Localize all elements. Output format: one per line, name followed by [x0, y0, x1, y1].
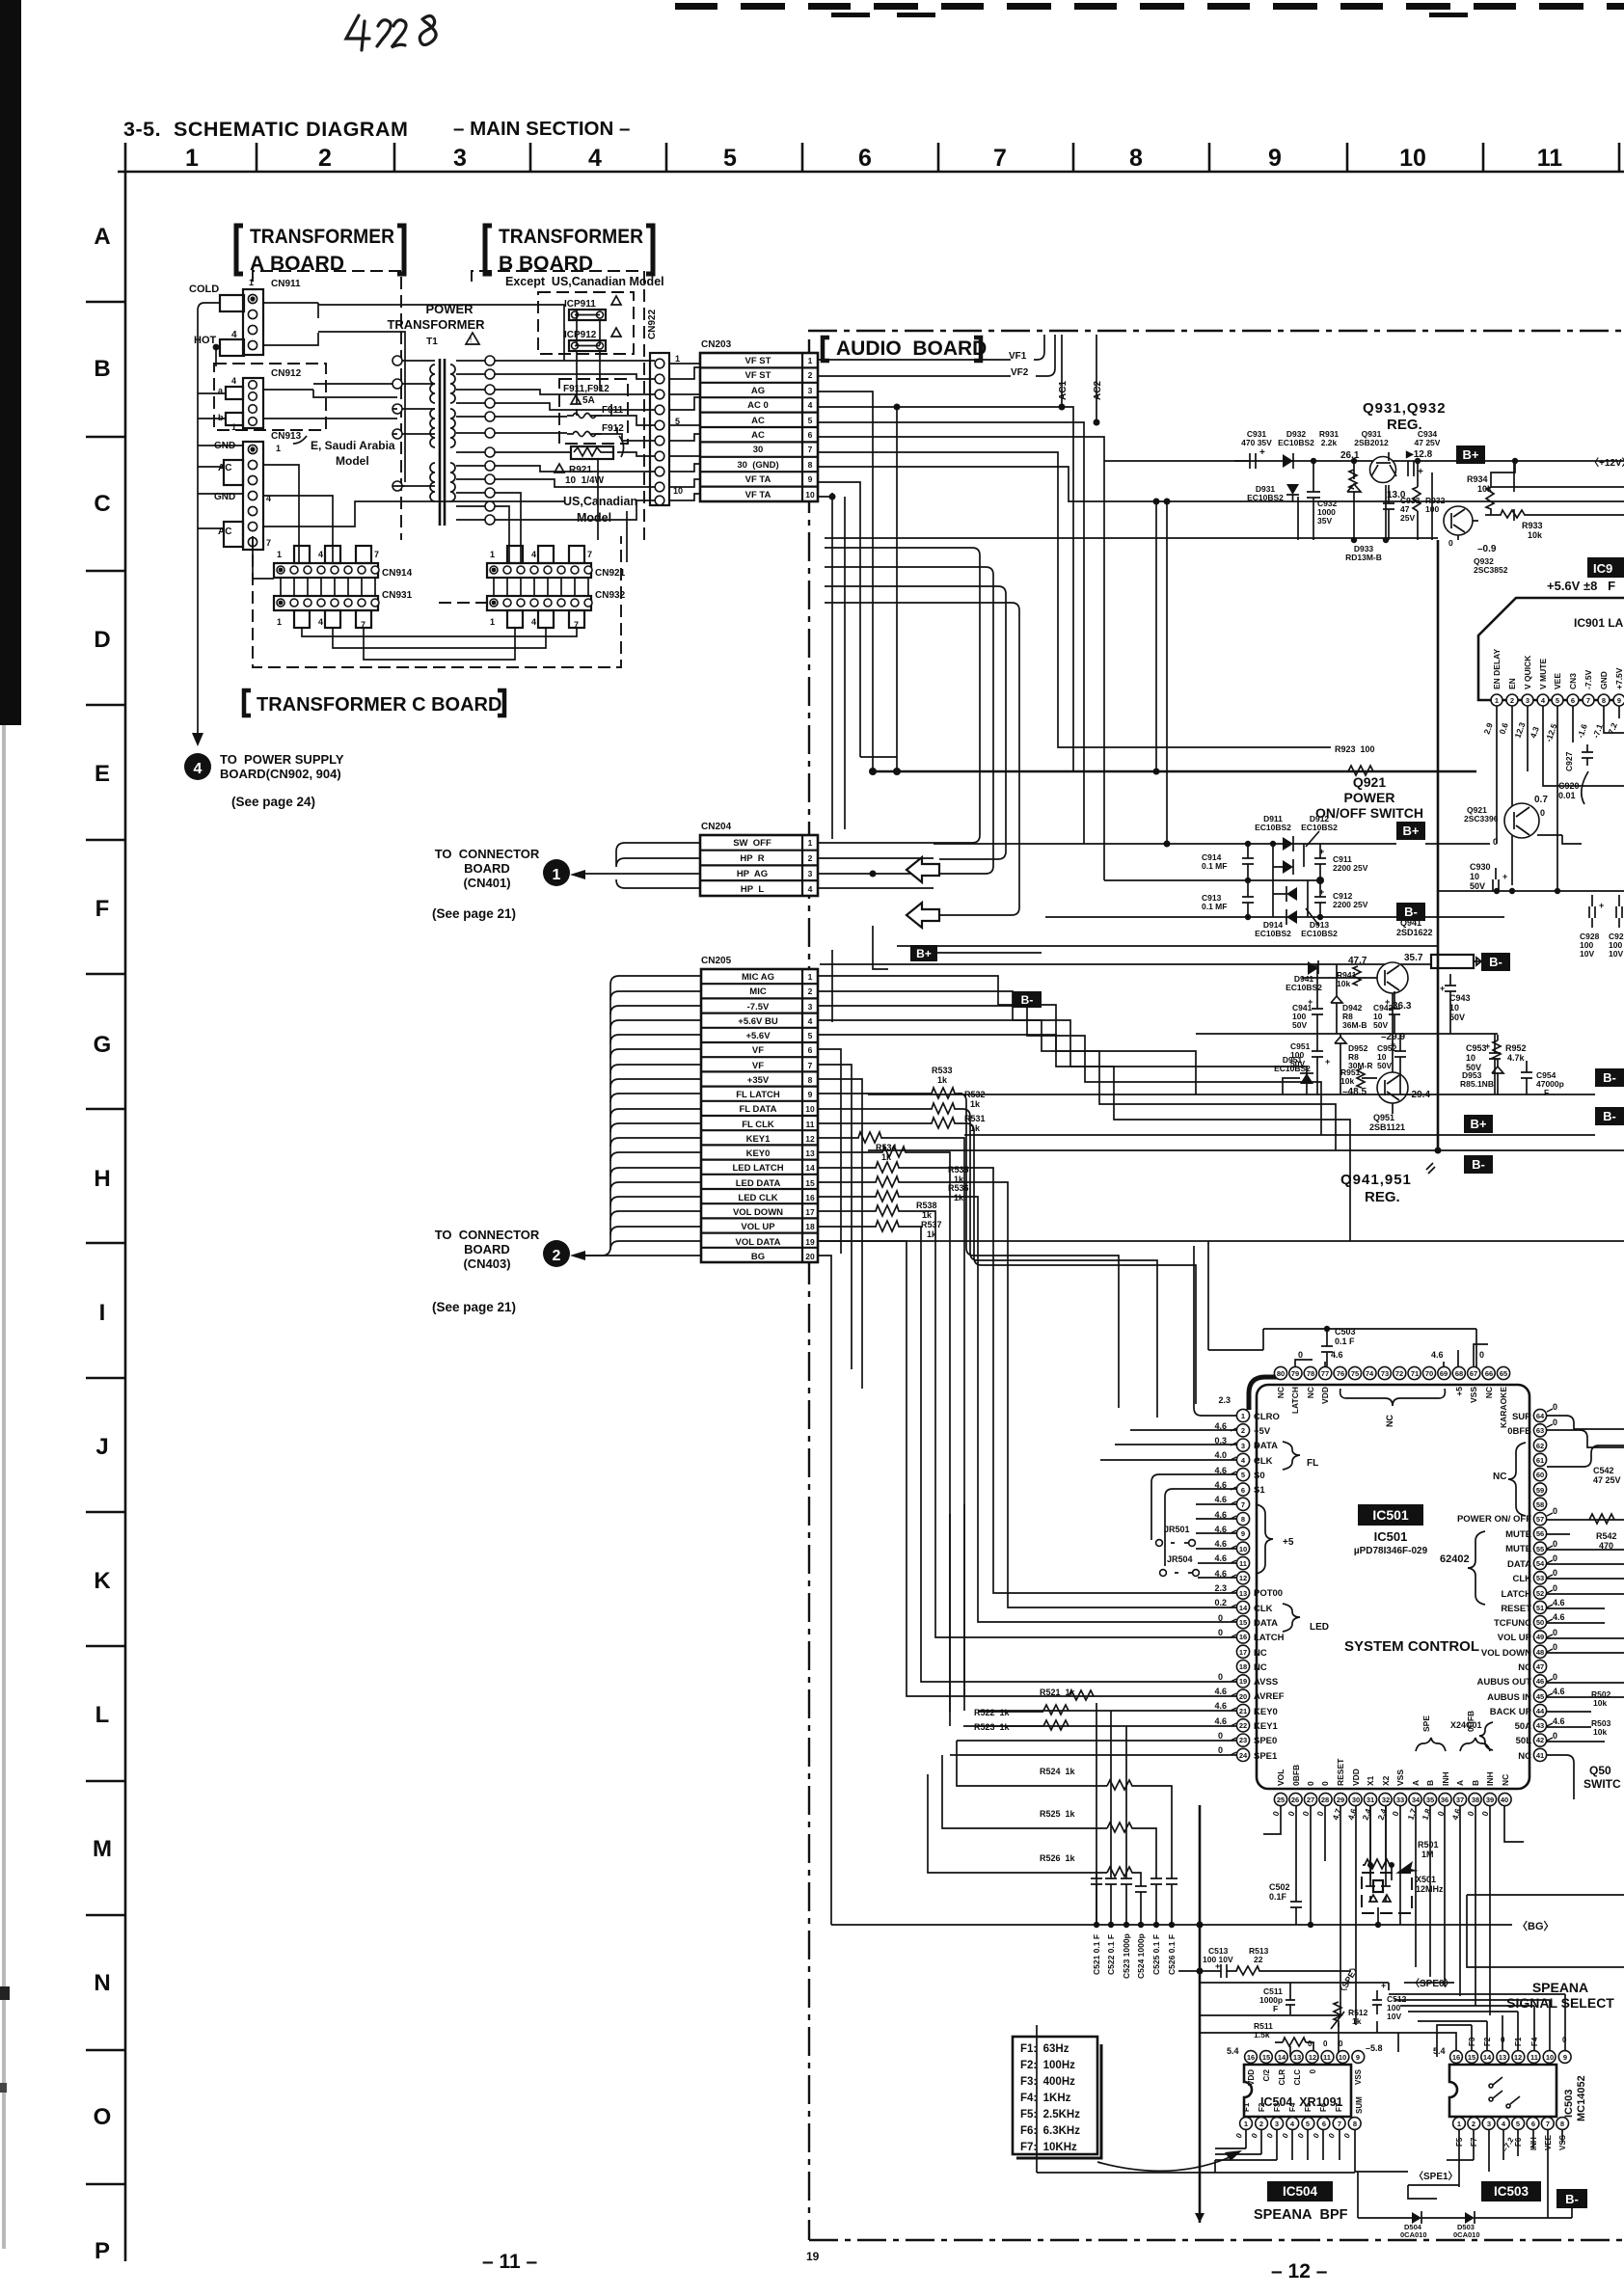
svg-text:E: E: [95, 761, 110, 787]
svg-text:Model: Model: [577, 511, 611, 525]
svg-text:30: 30: [753, 445, 764, 455]
IC503 top pins: [1450, 2051, 1572, 2064]
capacitor bank C521-C526: [1091, 1871, 1177, 1925]
svg-text:C526 0.1 F: C526 0.1 F: [1167, 1934, 1177, 1975]
svg-text:+: +: [1485, 1041, 1490, 1051]
svg-text:LATCH: LATCH: [1502, 1589, 1532, 1600]
rail y1000: [820, 963, 1431, 965]
svg-text:2: 2: [1259, 2120, 1263, 2128]
svg-text:2200 25V: 2200 25V: [1333, 863, 1368, 873]
svg-text:DATA: DATA: [1254, 1618, 1278, 1629]
svg-text:0: 0: [1553, 1642, 1557, 1652]
svg-text:Q951: Q951: [1373, 1113, 1394, 1122]
note 4 to power supply: [192, 733, 203, 746]
svg-text:+5: +5: [1454, 1387, 1464, 1396]
net B+ mid: [1464, 1115, 1493, 1133]
transformer T1 primary winding: [430, 365, 435, 403]
svg-text:47: 47: [1536, 1662, 1544, 1671]
svg-text:12: 12: [1514, 2053, 1522, 2062]
svg-text:7: 7: [266, 538, 271, 548]
svg-text:BOARD: BOARD: [464, 1242, 510, 1256]
svg-text:4.6: 4.6: [1214, 1539, 1227, 1549]
svg-text:MUTE: MUTE: [1505, 1544, 1531, 1554]
svg-text:MC14052: MC14052: [1576, 2075, 1587, 2121]
svg-text:EC10BS2: EC10BS2: [1255, 929, 1291, 938]
wire AC2 riser: [1096, 335, 1097, 422]
svg-text:CLR: CLR: [1278, 2069, 1286, 2086]
wire pin4 junction riser: [896, 407, 898, 771]
svg-text:4.6: 4.6: [1553, 1716, 1565, 1726]
svg-text:+35V: +35V: [747, 1075, 770, 1086]
svg-text:4.6: 4.6: [1553, 1612, 1565, 1622]
svg-text:C542: C542: [1593, 1466, 1614, 1475]
svg-text:CN205: CN205: [701, 956, 732, 966]
svg-text:13: 13: [1293, 2053, 1301, 2062]
svg-text:0: 0: [1339, 2039, 1343, 2048]
svg-text:SWITC: SWITC: [1583, 1777, 1621, 1791]
svg-text:R921: R921: [569, 465, 592, 475]
IC501 label box: [1358, 1504, 1423, 1526]
IC501 right pin voltages: [1553, 1402, 1565, 1741]
signal arrow HP R: [907, 857, 939, 882]
svg-text:6: 6: [1531, 2120, 1535, 2128]
svg-text:MUTE: MUTE: [1505, 1529, 1531, 1540]
svg-text:µPD78I346F-029: µPD78I346F-029: [1354, 1546, 1428, 1556]
svg-text:O: O: [94, 2104, 112, 2130]
svg-text:30 (GND): 30 (GND): [737, 460, 778, 471]
svg-text:2: 2: [318, 145, 332, 172]
svg-text:0.1F: 0.1F: [1269, 1892, 1287, 1902]
wires CN913 right: [253, 465, 564, 562]
wire B board bottom drops: [495, 459, 627, 562]
svg-text:1: 1: [277, 617, 282, 627]
svg-text:AC2: AC2: [1093, 381, 1103, 400]
callout circle 1: [543, 859, 570, 886]
svg-text:VF ST: VF ST: [745, 356, 771, 366]
svg-text:0: 0: [1553, 1731, 1557, 1741]
diode D932: [1283, 454, 1293, 468]
svg-text:AUBUS IN: AUBUS IN: [1487, 1692, 1531, 1703]
svg-text:2: 2: [808, 853, 813, 863]
mid riser wires: [1156, 501, 1167, 844]
svg-text:B+: B+: [1463, 447, 1479, 462]
svg-text:0: 0: [1320, 1781, 1330, 1786]
svg-text:SPE: SPE: [1421, 1715, 1431, 1732]
svg-text:R526 1k: R526 1k: [1040, 1853, 1076, 1863]
svg-text:D: D: [94, 627, 110, 653]
svg-text:54: 54: [1536, 1559, 1545, 1568]
handwritten 4228: [346, 15, 436, 50]
svg-text:B-: B-: [1404, 905, 1418, 919]
svg-text:5.4: 5.4: [1433, 2046, 1446, 2056]
svg-text:R535: R535: [948, 1165, 969, 1175]
svg-text:Q50: Q50: [1589, 1764, 1611, 1777]
svg-text:0BFB: 0BFB: [1291, 1765, 1301, 1786]
svg-text:NC: NC: [1518, 1662, 1531, 1673]
svg-text:77: 77: [1321, 1369, 1329, 1378]
IC503 body: [1449, 2065, 1556, 2117]
svg-text:KEY1: KEY1: [1254, 1721, 1279, 1732]
IC503 bottom pins: [1453, 2118, 1569, 2130]
svg-text:0BFB: 0BFB: [1466, 1711, 1475, 1732]
wire COLD loop: [198, 303, 220, 743]
svg-text:NC: NC: [1306, 1387, 1315, 1398]
svg-text:R538: R538: [916, 1201, 937, 1210]
svg-text:44: 44: [1536, 1707, 1545, 1715]
svg-text:R525 1k: R525 1k: [1040, 1809, 1076, 1819]
rail y924 c930: [1438, 890, 1624, 892]
svg-text:CN931: CN931: [382, 590, 413, 601]
svg-text:1: 1: [1241, 1412, 1245, 1420]
svg-text:50V: 50V: [1449, 1013, 1465, 1022]
svg-text:R522 1k: R522 1k: [974, 1708, 1011, 1717]
svg-text:62402: 62402: [1440, 1553, 1470, 1565]
svg-text:+: +: [1259, 447, 1265, 458]
svg-text:EC10BS2: EC10BS2: [1301, 823, 1338, 832]
IC503 top labels: [1468, 2037, 1539, 2046]
transistor Q941: [1377, 962, 1408, 993]
svg-text:C525 0.1 F: C525 0.1 F: [1151, 1934, 1161, 1975]
svg-text:0: 0: [1218, 1745, 1223, 1755]
svg-text:40: 40: [1501, 1796, 1508, 1804]
svg-text:B+: B+: [1403, 824, 1420, 838]
svg-text:A: A: [1411, 1780, 1421, 1786]
svg-text:R523 1k: R523 1k: [974, 1722, 1011, 1732]
svg-text:B-: B-: [1603, 1070, 1616, 1085]
wires into left pins: [950, 1246, 1236, 1755]
svg-text:10: 10: [1239, 1545, 1247, 1553]
svg-text:SPE1: SPE1: [1254, 1751, 1278, 1762]
svg-text:69: 69: [1440, 1369, 1448, 1378]
svg-text:FL LATCH: FL LATCH: [736, 1090, 780, 1100]
svg-text:50: 50: [1536, 1618, 1544, 1627]
legs above CN921: [507, 546, 523, 563]
svg-text:– 12 –: – 12 –: [1271, 2260, 1328, 2282]
svg-text:14: 14: [805, 1163, 815, 1173]
component labels row: [1241, 429, 1441, 447]
svg-text:8: 8: [1602, 696, 1606, 705]
svg-text:AVSS: AVSS: [1254, 1677, 1278, 1688]
scan edge black bar: [0, 0, 21, 725]
capacitor C931: [1250, 453, 1256, 469]
IC501 top pin names: [1276, 1387, 1508, 1428]
crystal X501: [1362, 1873, 1412, 1913]
svg-text:47000p: 47000p: [1536, 1079, 1564, 1089]
svg-text:73: 73: [1381, 1369, 1389, 1378]
IC901 pin voltages: [1481, 720, 1619, 743]
svg-text:N: N: [94, 1970, 110, 1996]
svg-text:NC: NC: [1493, 1472, 1506, 1482]
svg-text:2: 2: [808, 370, 813, 380]
svg-text:47 25V: 47 25V: [1415, 438, 1441, 447]
svg-text:HP R: HP R: [740, 853, 764, 864]
resistor R921: [571, 446, 614, 459]
transformer T1 secondary winding: [450, 365, 455, 403]
svg-text:7: 7: [808, 1061, 813, 1070]
B board dashed outline: [472, 271, 644, 540]
svg-text:9: 9: [808, 474, 813, 484]
svg-text:35: 35: [1426, 1796, 1434, 1804]
capacitor C928: [1589, 895, 1595, 928]
svg-text:F4: 1KHz: F4: 1KHz: [1020, 2093, 1071, 2104]
svg-text:3: 3: [808, 386, 813, 395]
svg-text:BG: BG: [751, 1252, 765, 1262]
svg-text:3: 3: [808, 869, 813, 878]
svg-text:IC503: IC503: [1494, 2184, 1529, 2199]
svg-text:1: 1: [490, 550, 495, 559]
legs below CN931: [294, 610, 310, 628]
svg-text:(CN401): (CN401): [463, 876, 510, 890]
svg-text:VF: VF: [752, 1045, 764, 1056]
wires power switch mesh: [1273, 844, 1308, 917]
svg-text:I: I: [99, 1300, 106, 1326]
svg-text:26.1: 26.1: [1340, 450, 1360, 461]
svg-text:R524 1k: R524 1k: [1040, 1767, 1076, 1776]
svg-text:3: 3: [808, 1002, 813, 1012]
svg-text:VF TA: VF TA: [745, 490, 771, 500]
svg-text:0: 0: [1479, 1350, 1484, 1360]
svg-text:CLRO: CLRO: [1254, 1412, 1280, 1422]
svg-text:19: 19: [805, 1237, 815, 1247]
svg-text:– MAIN SECTION –: – MAIN SECTION –: [453, 118, 630, 140]
svg-text:64: 64: [1536, 1412, 1545, 1420]
svg-text:+: +: [1325, 1057, 1330, 1067]
svg-text:0: 0: [1493, 837, 1498, 847]
svg-text:CN204: CN204: [701, 822, 732, 832]
wires T1 secondary stubs: [456, 361, 485, 520]
svg-text:42: 42: [1536, 1736, 1544, 1744]
svg-text:4.6: 4.6: [1331, 1350, 1343, 1360]
svg-text:1: 1: [808, 972, 813, 982]
svg-text:F4: F4: [1288, 2102, 1297, 2112]
svg-text:KARAOKE: KARAOKE: [1499, 1387, 1508, 1428]
svg-text:22: 22: [1254, 1955, 1263, 1964]
svg-text:0: 0: [1553, 1418, 1557, 1427]
rail y1072: [1196, 964, 1498, 1034]
svg-text:Q941: Q941: [1400, 918, 1421, 928]
wire HP bundle right: [825, 586, 1019, 915]
svg-text:TRANSFORMER: TRANSFORMER: [499, 226, 643, 248]
wires IC901 pins down: [1497, 706, 1624, 891]
svg-text:7: 7: [374, 550, 379, 559]
svg-text:31: 31: [1367, 1796, 1374, 1804]
arrow from table: [1097, 2154, 1236, 2171]
svg-text:0: 0: [1553, 1628, 1557, 1637]
svg-text:50L: 50L: [1516, 1736, 1532, 1746]
wire CN203-6: [818, 437, 1104, 880]
svg-text:+5.6V: +5.6V: [745, 1031, 771, 1041]
svg-text:5.4: 5.4: [1227, 2046, 1239, 2056]
svg-text:0: 0: [1298, 1350, 1303, 1360]
svg-text:1M: 1M: [1421, 1850, 1434, 1859]
svg-text:15: 15: [1262, 2053, 1270, 2062]
IC504 body: [1244, 2065, 1351, 2117]
svg-text:F1: F1: [1242, 2102, 1251, 2112]
svg-text:R542: R542: [1596, 1531, 1617, 1541]
net B- right 1: [1595, 1068, 1624, 1087]
svg-text:IC501: IC501: [1374, 1529, 1408, 1544]
svg-text:3-5. SCHEMATIC DIAGRAM: 3-5. SCHEMATIC DIAGRAM: [123, 118, 408, 141]
svg-text:25: 25: [1277, 1796, 1285, 1804]
svg-text:F5: 2.5KHz: F5: 2.5KHz: [1020, 2109, 1080, 2120]
svg-text:CN914: CN914: [382, 568, 413, 579]
svg-text:-7.5V: -7.5V: [747, 1002, 770, 1013]
svg-text:4.6: 4.6: [1553, 1687, 1565, 1696]
svg-text:MIC: MIC: [749, 986, 767, 997]
svg-text:F5: F5: [1304, 2102, 1313, 2112]
IC503 label box: [1481, 2181, 1541, 2201]
svg-text:INH: INH: [1485, 1771, 1495, 1786]
capacitor C927: [1582, 744, 1593, 766]
IC501 top pin row 80-65: [1274, 1366, 1509, 1379]
C board dashed outline: [253, 536, 621, 667]
svg-text:0: 0: [1553, 1506, 1557, 1516]
svg-text:F911,F912: F911,F912: [563, 384, 609, 394]
svg-text:10: 10: [1546, 2053, 1554, 2062]
svg-text:18: 18: [805, 1222, 815, 1231]
svg-text:CN3: CN3: [1568, 673, 1578, 689]
svg-text:S1: S1: [1254, 1485, 1265, 1496]
svg-text:4.7k: 4.7k: [1507, 1053, 1526, 1063]
svg-text:36: 36: [1441, 1796, 1448, 1804]
svg-text:KEY1: KEY1: [746, 1134, 771, 1145]
svg-text:37: 37: [1456, 1796, 1464, 1804]
svg-text:49: 49: [1536, 1633, 1544, 1641]
svg-text:8: 8: [1353, 2120, 1357, 2128]
svg-text:AG: AG: [751, 386, 765, 396]
svg-text:36.3: 36.3: [1393, 1001, 1412, 1012]
svg-text:1k: 1k: [954, 1193, 964, 1202]
svg-text:EC10BS2: EC10BS2: [1255, 823, 1291, 832]
svg-text:5: 5: [1241, 1471, 1245, 1479]
svg-text:NC: NC: [1518, 1751, 1531, 1762]
CN912 dashed box (E Saudi Arabia): [214, 364, 326, 430]
svg-text:4.6: 4.6: [1214, 1553, 1227, 1563]
warning triangle T1: [466, 333, 479, 344]
svg-text:0: 0: [1553, 1553, 1557, 1563]
svg-text:58: 58: [1536, 1500, 1544, 1509]
svg-text:NC: NC: [1501, 1774, 1510, 1786]
svg-text:R531: R531: [964, 1114, 986, 1123]
svg-text:35V: 35V: [1317, 516, 1332, 526]
svg-text:X1: X1: [1366, 1775, 1375, 1786]
svg-text:11: 11: [1537, 145, 1563, 172]
F911 F912 dashed box: [559, 379, 628, 444]
svg-text:ON/OFF SWITCH: ON/OFF SWITCH: [1315, 805, 1423, 821]
svg-text:T1: T1: [426, 337, 438, 347]
svg-text:B-: B-: [1565, 2192, 1579, 2206]
IC504 bottom pins: [1240, 2118, 1362, 2130]
wire CN203-10: [818, 493, 845, 839]
svg-text:CLK: CLK: [1254, 1456, 1273, 1467]
svg-text:POT00: POT00: [1254, 1588, 1283, 1599]
0BFB brace bottom: [1460, 1738, 1490, 1751]
rail y1135: [868, 1094, 1595, 1095]
wire CN911 pins right: [263, 303, 318, 345]
svg-text:1: 1: [675, 354, 680, 364]
svg-text:AUDIO BOARD: AUDIO BOARD: [836, 338, 987, 360]
wire diode row: [1358, 2172, 1572, 2218]
svg-text:R933: R933: [1522, 521, 1543, 530]
svg-text:P: P: [95, 2238, 110, 2264]
svg-text:9: 9: [1563, 2053, 1567, 2062]
svg-text:41: 41: [1536, 1751, 1544, 1760]
svg-text:1k: 1k: [970, 1123, 981, 1133]
svg-text:VF ST: VF ST: [745, 370, 771, 381]
grid row ticks: [86, 302, 125, 2184]
svg-text:ICP911: ICP911: [564, 299, 596, 310]
svg-text:1: 1: [1495, 696, 1499, 705]
wire CN203-3 long vertical: [818, 392, 873, 771]
svg-text:0: 0: [1448, 538, 1453, 548]
wires CN912 right: [263, 390, 397, 419]
transformer B board title: [485, 226, 653, 274]
wire VF1: [818, 335, 1044, 360]
svg-text:0CA010: 0CA010: [1453, 2230, 1480, 2239]
svg-text:C920: C920: [1558, 781, 1580, 791]
svg-text:C502: C502: [1269, 1882, 1290, 1892]
top page-edge dashes: [675, 3, 1624, 17]
svg-text:13: 13: [1239, 1589, 1247, 1598]
svg-text:76: 76: [1337, 1369, 1344, 1378]
wire SPE right: [1467, 1895, 1624, 1967]
svg-text:BOARD: BOARD: [464, 861, 510, 876]
svg-text:CLK: CLK: [1512, 1574, 1531, 1584]
svg-text:F: F: [1544, 1088, 1549, 1097]
R542 resistor: [1589, 1514, 1614, 1524]
svg-text:2: 2: [553, 1248, 561, 1264]
transistor Q931: [1370, 457, 1396, 483]
svg-text:63: 63: [1536, 1426, 1544, 1435]
svg-text:+: +: [1440, 984, 1445, 993]
main vertical x1244: [1199, 1805, 1202, 2223]
svg-text:4: 4: [231, 376, 236, 386]
svg-text:RESET: RESET: [1336, 1758, 1345, 1786]
svg-text:FL CLK: FL CLK: [742, 1120, 774, 1130]
svg-text:8: 8: [1560, 2120, 1564, 2128]
wires right pins out: [1547, 1416, 1624, 1799]
svg-text:!: !: [470, 336, 472, 344]
svg-text:3: 3: [1275, 2120, 1279, 2128]
IC503 internal switches: [1493, 2077, 1520, 2104]
wire CN203-5: [818, 422, 1084, 844]
svg-text:470: 470: [1599, 1541, 1613, 1551]
E Saudi Arabia model note: [293, 436, 307, 444]
svg-text:VDD: VDD: [1351, 1769, 1361, 1786]
svg-text:29: 29: [1337, 1796, 1344, 1804]
svg-text:6: 6: [1322, 2120, 1326, 2128]
svg-text:10: 10: [1399, 145, 1426, 172]
svg-text:C930: C930: [1470, 862, 1491, 872]
svg-text:0: 0: [1553, 1583, 1557, 1593]
svg-text:57: 57: [1536, 1515, 1544, 1524]
svg-text:5: 5: [808, 416, 813, 425]
svg-text:66: 66: [1485, 1369, 1493, 1378]
svg-text:AC1: AC1: [1058, 381, 1069, 400]
svg-text:2: 2: [808, 986, 813, 996]
svg-text:F3: F3: [1273, 2102, 1282, 2112]
svg-text:72: 72: [1395, 1369, 1403, 1378]
IC501 +5 brace pins7-12: [1256, 1504, 1273, 1574]
grid left vertical line: [124, 172, 127, 2261]
svg-text:80: 80: [1277, 1369, 1285, 1378]
IC504 bottom pin wires: [1215, 2129, 1355, 2172]
svg-text:1: 1: [553, 867, 561, 883]
svg-text:〈BG〉: 〈BG〉: [1517, 1920, 1555, 1932]
svg-text:B: B: [94, 356, 110, 382]
svg-text:F1: 63Hz: F1: 63Hz: [1020, 2043, 1069, 2055]
svg-text:SUM: SUM: [1355, 2096, 1364, 2114]
